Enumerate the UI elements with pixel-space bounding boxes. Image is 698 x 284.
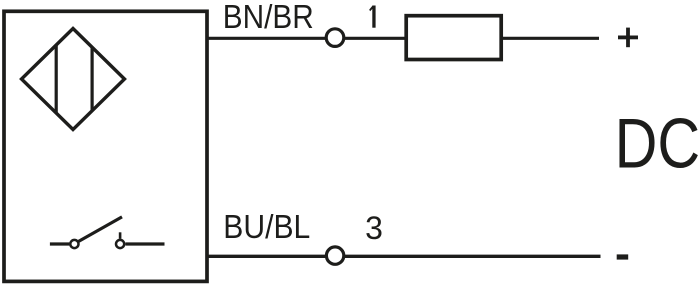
switch right contact stub [119, 232, 122, 239]
pin number 1 [369, 6, 375, 28]
wire BU/BL from body to node 3 [206, 255, 327, 258]
wire node 1 to load resistor [345, 37, 407, 40]
svg-text:BU/BL: BU/BL [223, 208, 310, 245]
proximity sensor diamond [22, 29, 125, 130]
switch right lead [126, 242, 165, 245]
wire BN/BR from body to node 1 [206, 37, 327, 40]
load resistor [406, 16, 501, 60]
plus terminal [618, 28, 638, 48]
switch right contact circle [116, 240, 124, 248]
svg-text:DC: DC [615, 104, 698, 183]
node 1 terminal circle [326, 29, 344, 47]
minus terminal [617, 254, 629, 259]
switch left contact circle [70, 240, 78, 248]
switch left lead [50, 242, 70, 245]
diamond right chord [90, 47, 93, 111]
wire resistor to plus [501, 37, 599, 40]
svg-text:3: 3 [365, 210, 383, 246]
diamond left chord [55, 45, 58, 113]
sensor body box [4, 11, 207, 281]
node 3 terminal circle [326, 247, 343, 264]
svg-text:BN/BR: BN/BR [223, 0, 314, 35]
wire node 3 to minus [345, 255, 601, 258]
switch arm [79, 217, 122, 242]
